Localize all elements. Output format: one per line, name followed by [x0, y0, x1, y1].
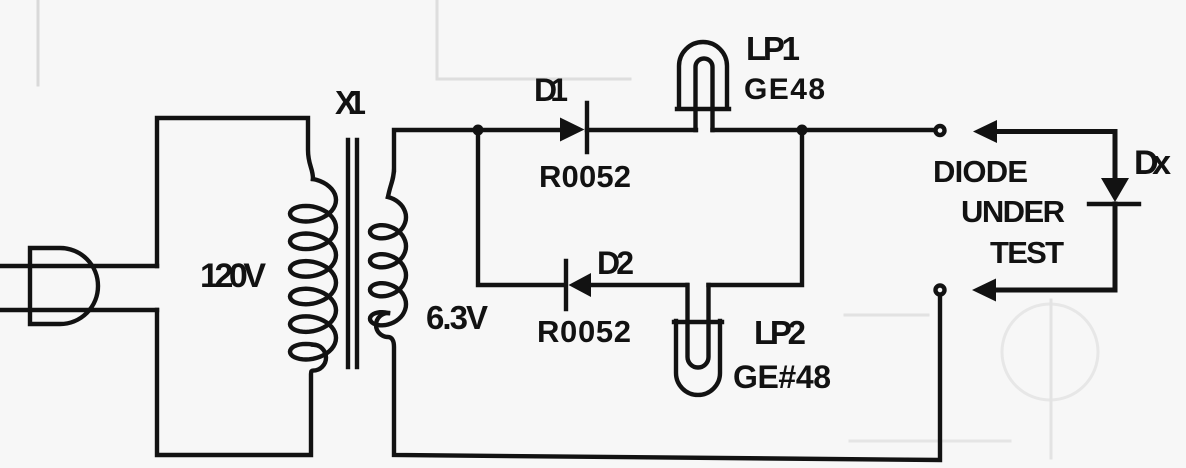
svg-text:LP2: LP2 [754, 314, 806, 351]
faint bleed-through line near D1 [437, 0, 630, 79]
svg-text:R0052: R0052 [539, 159, 631, 194]
transformer X1 core line 2 [355, 140, 359, 367]
svg-text:Dx: Dx [1134, 144, 1171, 182]
wire: top rail junction to D1 [478, 128, 560, 132]
svg-text:6.3V: 6.3V [426, 299, 488, 336]
svg-text:LP1: LP1 [746, 30, 800, 67]
wire: D1 to LP1 left leg [587, 128, 696, 132]
svg-text:R0052: R0052 [537, 314, 631, 349]
lamp LP2 base line [674, 320, 722, 324]
faint bleed-through horizontal lower right [850, 440, 1010, 443]
svg-text:TEST: TEST [990, 235, 1064, 270]
wire: secondary coil exit down to bottom rail, right, and up to bottom terminal [376, 297, 940, 460]
node: top-right junction dot [797, 125, 808, 136]
faint bleed-through circle bottom-right [1002, 304, 1098, 400]
lamp LP1 envelope [679, 42, 727, 108]
svg-text:UNDER: UNDER [961, 194, 1065, 229]
terminal: top test clip (open circle) [936, 126, 945, 135]
diode D2 cathode bar [564, 261, 568, 309]
wire: D2 to LP2 left leg [590, 283, 687, 287]
wire: LP2 right leg to right vertical up to top-right node [709, 130, 803, 285]
lamp LP2 envelope [676, 321, 720, 395]
node: top-left junction dot [473, 125, 484, 136]
diode Dx triangle [1101, 178, 1129, 202]
terminal: bottom test clip (open circle) [936, 286, 945, 295]
svg-text:GE#48: GE#48 [733, 359, 831, 395]
wire: bottom prong of AC plug [0, 308, 157, 312]
wire: LP1 right leg to right junction and terminal [713, 128, 935, 132]
diode D1 cathode bar [585, 103, 589, 152]
svg-text:DIODE: DIODE [933, 154, 1028, 189]
svg-text:D2: D2 [597, 245, 634, 281]
lamp LP1 base line [677, 107, 729, 111]
lamp LP1 filament and legs [696, 59, 713, 131]
lamp LP2 filament and legs [688, 285, 709, 368]
arrow to bottom terminal [972, 279, 996, 302]
AC plug body [30, 248, 98, 324]
svg-text:120V: 120V [200, 257, 266, 295]
diode D1 triangle [560, 118, 585, 142]
svg-text:GE48: GE48 [744, 73, 825, 106]
transformer X1 core line 1 [346, 140, 350, 367]
wire: primary loop left+top (prong to X1 primary top) [157, 118, 313, 266]
transformer X1 secondary winding [370, 197, 406, 325]
wire: left vertical of middle branch and to D2 [478, 130, 564, 285]
svg-text:D1: D1 [534, 72, 568, 108]
transformer X1 primary winding [290, 179, 336, 360]
arrow to top terminal [973, 120, 997, 143]
wire: primary coil exit to bottom rail and back to bottom prong [157, 310, 326, 455]
faint bleed-through horizontal near LP2 [845, 314, 928, 317]
diode Dx cathode bar [1089, 202, 1139, 206]
wire: secondary top lead to top rail [388, 130, 472, 197]
wire: Dx bottom lead to bottom arrow [996, 204, 1115, 290]
diode D2 triangle [569, 273, 592, 297]
wire: top arrow line to Dx [996, 132, 1115, 179]
faint bleed-through vertical bottom-right [1050, 300, 1053, 458]
svg-text:X1: X1 [335, 84, 366, 121]
faint bleed-through line top-left [37, 0, 40, 85]
wire: top prong of AC plug [0, 264, 157, 268]
